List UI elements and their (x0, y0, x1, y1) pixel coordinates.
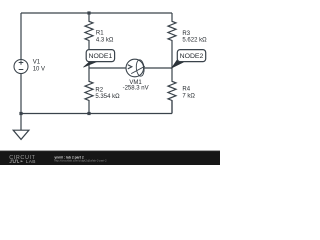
junction dot R2 bottom (87, 112, 90, 115)
wire bottom-right riser (171, 101, 173, 114)
wire middle NODE1 to VM1 (89, 67, 126, 69)
node NODE1 (83, 50, 114, 68)
svg-text:R1: R1 (96, 31, 104, 37)
svg-text:7 kΩ: 7 kΩ (182, 93, 195, 99)
svg-text:10 V: 10 V (33, 66, 45, 72)
svg-text:NODE1: NODE1 (89, 53, 113, 60)
footer bar (0, 151, 220, 165)
wire V1 bottom to ground junction (20, 74, 22, 114)
ground (13, 114, 29, 140)
svg-text:LAB: LAB (26, 159, 36, 165)
wire bottom rail (21, 113, 172, 115)
svg-text:4.3 kΩ: 4.3 kΩ (96, 37, 114, 43)
voltage source V1 (14, 60, 28, 74)
svg-text:-258.3 nV: -258.3 nV (123, 85, 149, 91)
resistor R2 (85, 68, 93, 114)
svg-text:R4: R4 (182, 87, 190, 93)
svg-text:5.354 kΩ: 5.354 kΩ (95, 94, 120, 100)
junction dot ground (19, 112, 22, 115)
svg-text:R3: R3 (182, 31, 190, 37)
resistor R4 (168, 68, 176, 114)
footer logo wave (10, 160, 20, 162)
svg-text:NODE2: NODE2 (180, 53, 204, 60)
wire VM1 to NODE2 (144, 67, 172, 69)
svg-text:V1: V1 (33, 59, 41, 65)
voltmeter VM1 (126, 59, 144, 77)
junction dot top (R1 tap) (87, 11, 90, 14)
node NODE2 (172, 50, 206, 68)
resistor R3 (168, 13, 176, 68)
resistor R1 (85, 13, 93, 68)
svg-text:R2: R2 (95, 87, 103, 93)
wire left rail top (20, 13, 22, 60)
footer logo arrow (21, 160, 24, 162)
svg-text:http://circuitlab.com/c/dgk2q5: http://circuitlab.com/c/dgk2q5u/lab-2-pa… (54, 158, 107, 162)
svg-text:5.622 kΩ: 5.622 kΩ (182, 38, 207, 44)
wire top rail (21, 12, 172, 14)
